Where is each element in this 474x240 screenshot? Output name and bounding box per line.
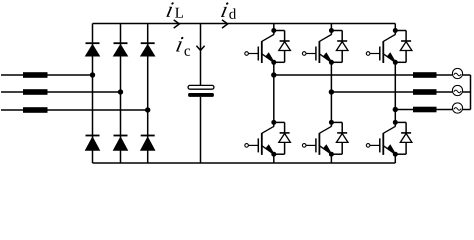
wire output phase 3 — [395, 109, 413, 111]
diode Q2 (upper) antiparallel — [341, 31, 343, 42]
node phase 1 to rectifier leg 1 — [90, 72, 95, 77]
node Q2 (upper) diode branch — [329, 28, 334, 33]
wire Q6 (lower) emitter lead — [394, 154, 396, 163]
node Q1 (upper) emitter — [271, 60, 276, 65]
transistor Q6 (lower) IGBT — [383, 126, 395, 133]
wire Q1 (upper) diode branch top — [274, 30, 285, 32]
diode D6 (lower) — [141, 135, 155, 137]
node phase 3 to rectifier leg 3 — [145, 107, 150, 112]
wire Q3 (upper) collector — [394, 24, 396, 35]
wire output phase 1 — [274, 74, 414, 76]
wire input phase 2 — [1, 91, 121, 93]
inductor load impedance 3 — [413, 107, 437, 113]
capacitor C1 — [188, 85, 214, 89]
wire capacitor bottom lead — [200, 97, 202, 163]
label i_L — [166, 2, 174, 17]
transistor Q4 (lower) IGBT — [262, 126, 274, 133]
wire Q2 (upper) diode branch bottom — [331, 61, 342, 63]
diode Q5 (lower) antiparallel — [341, 122, 343, 132]
wire Q5 (lower) diode branch top — [331, 121, 342, 123]
diode D2 (upper) — [114, 42, 128, 44]
diode D5 (lower) — [114, 135, 128, 137]
inductor load impedance 1 — [413, 72, 437, 78]
node Q3 (upper) emitter — [393, 60, 398, 65]
wire Q5 (lower) diode branch bottom — [331, 153, 342, 155]
wire Q2 (upper) collector — [330, 24, 332, 35]
transistor Q2 (upper) IGBT — [319, 35, 331, 42]
diode D3 (upper) — [141, 42, 155, 44]
wire Q3 (upper) diode branch bottom — [395, 61, 406, 63]
arrow i_d (right) — [222, 20, 228, 28]
wire load to source 3 — [437, 109, 453, 111]
wire Q5 (lower) collector — [330, 92, 332, 127]
wire Q2 (upper) emitter lead — [330, 62, 332, 92]
node inverter output 3 — [393, 107, 398, 112]
node Q5 (lower) emitter — [329, 152, 334, 157]
arrow i_c (down) — [196, 46, 204, 51]
node Q5 (lower) diode branch — [329, 120, 334, 125]
node Q1 (upper) diode branch — [271, 28, 276, 33]
diode Q1 (upper) antiparallel — [284, 31, 286, 42]
diode Q6 (lower) antiparallel — [405, 122, 407, 132]
node inverter output 2 — [329, 89, 334, 94]
node Q3 (upper) diode branch — [393, 28, 398, 33]
inductor input impedance 3 — [23, 107, 48, 113]
inductor load impedance 2 — [413, 89, 437, 95]
wire DC bus positive rail — [93, 23, 396, 25]
node phase 2 to rectifier leg 2 — [118, 89, 123, 94]
wire Q6 (lower) diode branch bottom — [395, 153, 406, 155]
wire Q5 (lower) emitter lead — [330, 154, 332, 163]
wire output phase 2 — [331, 91, 413, 93]
wire Q1 (upper) emitter lead — [273, 62, 275, 75]
wire Q1 (upper) diode branch bottom — [274, 61, 285, 63]
source AC phase 2 — [452, 85, 462, 95]
wire Q4 (lower) diode branch top — [274, 121, 285, 123]
wire load to source 1 — [437, 74, 453, 76]
transistor Q3 (upper) IGBT — [383, 35, 395, 42]
wire Q2 (upper) diode branch top — [331, 30, 342, 32]
source AC phase 1 — [452, 68, 462, 78]
wire Q3 (upper) emitter lead — [394, 62, 396, 109]
wire source 3 to neutral — [463, 109, 471, 111]
wire load to source 2 — [437, 91, 453, 93]
inductor input impedance 1 — [23, 72, 48, 78]
node Q6 (lower) diode branch — [393, 120, 398, 125]
wire Q4 (lower) collector — [273, 75, 275, 127]
diode D1 (upper) — [86, 42, 100, 44]
wire input phase 3 — [1, 109, 148, 111]
wire rectifier leg 1 — [92, 24, 94, 164]
wire rectifier leg 2 — [120, 24, 122, 164]
wire Q4 (lower) emitter lead — [273, 154, 275, 163]
wire Q6 (lower) diode branch top — [395, 121, 406, 123]
node Q4 (lower) emitter — [271, 152, 276, 157]
wire Q6 (lower) collector — [394, 110, 396, 127]
wire Q1 (upper) collector — [273, 24, 275, 35]
wire input phase 1 — [1, 74, 93, 76]
wire capacitor top lead — [200, 24, 202, 86]
source AC phase 3 — [452, 103, 462, 113]
label i_d — [221, 2, 229, 17]
transistor Q5 (lower) IGBT — [319, 126, 331, 133]
label i_c — [176, 37, 184, 52]
wire Q3 (upper) diode branch top — [395, 30, 406, 32]
node Q4 (lower) diode branch — [271, 120, 276, 125]
node Q6 (lower) emitter — [393, 152, 398, 157]
arrow i_L (right) — [174, 20, 180, 28]
node Q2 (upper) emitter — [329, 60, 334, 65]
diode Q4 (lower) antiparallel — [284, 122, 286, 132]
transistor Q1 (upper) IGBT — [262, 35, 274, 42]
inductor input impedance 2 — [23, 89, 48, 95]
diode Q3 (upper) antiparallel — [405, 31, 407, 42]
wire rectifier leg 3 — [147, 24, 149, 164]
wire Q4 (lower) diode branch bottom — [274, 153, 285, 155]
node inverter output 1 — [271, 72, 276, 77]
diode D4 (lower) — [86, 135, 100, 137]
wire source 2 to neutral — [463, 91, 471, 93]
wire source 1 to neutral — [463, 74, 471, 76]
wire neutral bar — [470, 75, 472, 110]
wire DC bus negative rail — [93, 162, 396, 164]
